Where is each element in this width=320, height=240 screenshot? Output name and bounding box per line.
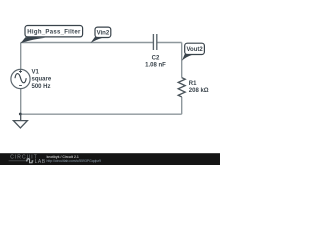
capacitor C2 bbox=[153, 34, 156, 50]
svg-text:1.08 nF: 1.08 nF bbox=[145, 63, 166, 69]
flag Vin2 bbox=[90, 27, 110, 43]
svg-text:R1: R1 bbox=[189, 81, 197, 87]
junction node bbox=[19, 113, 22, 116]
wire left branch lower bbox=[20, 88, 22, 114]
wire bottom bbox=[21, 113, 182, 115]
svg-text:LAB: LAB bbox=[35, 159, 46, 165]
value 208 kOhm bbox=[189, 88, 209, 94]
value 500 Hz bbox=[32, 84, 51, 90]
wire right branch lower bbox=[181, 97, 183, 114]
svg-text:http://circuitlab.com/c/5593PG: http://circuitlab.com/c/5593PGqqbz9 bbox=[47, 159, 102, 163]
footer title text bbox=[47, 155, 79, 159]
wire left branch upper bbox=[20, 43, 22, 70]
value square bbox=[32, 77, 52, 83]
label V1 bbox=[32, 69, 40, 75]
svg-text:High_Pass_Filter: High_Pass_Filter bbox=[27, 30, 81, 36]
wire top right segment bbox=[157, 42, 182, 44]
footer logo CIRCUIT bbox=[9, 154, 46, 165]
ground bbox=[13, 121, 27, 128]
svg-text:Vout2: Vout2 bbox=[186, 47, 203, 53]
wire top left segment bbox=[21, 42, 154, 44]
footer url text bbox=[47, 159, 102, 163]
value 1.08 nF bbox=[145, 63, 166, 69]
svg-text:500 Hz: 500 Hz bbox=[32, 84, 51, 90]
ground stem bbox=[20, 114, 22, 120]
label R1 bbox=[189, 81, 197, 87]
svg-text:208 kΩ: 208 kΩ bbox=[189, 88, 209, 94]
resistor R1 bbox=[178, 78, 185, 97]
voltage source V1 bbox=[11, 69, 30, 88]
flag High_Pass_Filter bbox=[21, 26, 83, 44]
footer bar bbox=[0, 153, 220, 165]
svg-text:Vin2: Vin2 bbox=[97, 31, 110, 37]
label C2 bbox=[152, 55, 160, 61]
svg-text:C2: C2 bbox=[152, 55, 160, 61]
svg-text:square: square bbox=[32, 77, 52, 83]
flag Vout2 bbox=[182, 43, 205, 61]
wire right branch upper bbox=[181, 43, 183, 78]
svg-text:V1: V1 bbox=[32, 69, 40, 75]
